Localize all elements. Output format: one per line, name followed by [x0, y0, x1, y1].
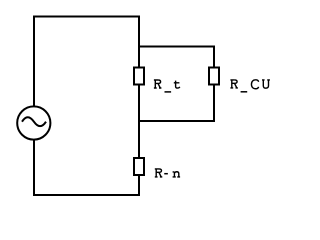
resistor R_t — [134, 68, 144, 85]
wire: top rail and upper-left vertical — [34, 17, 140, 107]
wire: middle vertical from R_t through junction to R-n — [138, 85, 140, 159]
label R_t — [154, 80, 180, 92]
resistor R-n — [134, 158, 144, 175]
wire: middle vertical from top rail to R_t — [138, 16, 140, 68]
wire: parallel-branch top to R_CU — [138, 47, 214, 68]
label R_CU — [230, 80, 270, 92]
wire: parallel-branch bottom from R_CU — [138, 85, 214, 122]
wire: lower-left vertical and bottom rail — [34, 139, 140, 195]
resistor R_CU — [209, 68, 219, 85]
label R-n — [155, 169, 180, 177]
wire: middle vertical from R-n to bottom rail — [138, 175, 140, 196]
AC source (sine-wave generator) — [17, 106, 50, 139]
